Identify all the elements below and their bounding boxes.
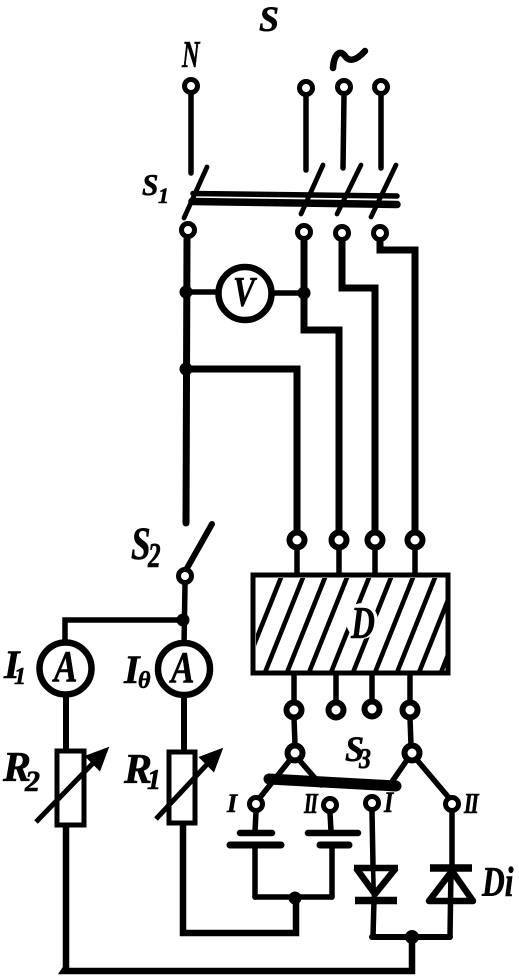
svg-text:Di: Di bbox=[481, 860, 514, 906]
svg-text:N: N bbox=[181, 34, 200, 76]
svg-text:I: I bbox=[383, 785, 394, 818]
svg-text:1: 1 bbox=[14, 664, 26, 690]
svg-text:D: D bbox=[350, 597, 375, 649]
svg-text:1: 1 bbox=[158, 183, 169, 208]
svg-text:V: V bbox=[233, 269, 257, 316]
svg-text:1: 1 bbox=[147, 765, 161, 796]
svg-text:S: S bbox=[259, 0, 279, 39]
svg-text:θ: θ bbox=[138, 668, 151, 694]
svg-text:A: A bbox=[51, 641, 77, 691]
svg-text:II: II bbox=[463, 789, 480, 820]
svg-text:II: II bbox=[303, 789, 319, 820]
svg-text:S: S bbox=[142, 167, 158, 202]
svg-text:A: A bbox=[168, 642, 194, 692]
svg-text:I: I bbox=[226, 789, 238, 818]
svg-text:3: 3 bbox=[358, 743, 371, 774]
svg-text:2: 2 bbox=[24, 765, 40, 798]
svg-text:2: 2 bbox=[147, 536, 160, 575]
